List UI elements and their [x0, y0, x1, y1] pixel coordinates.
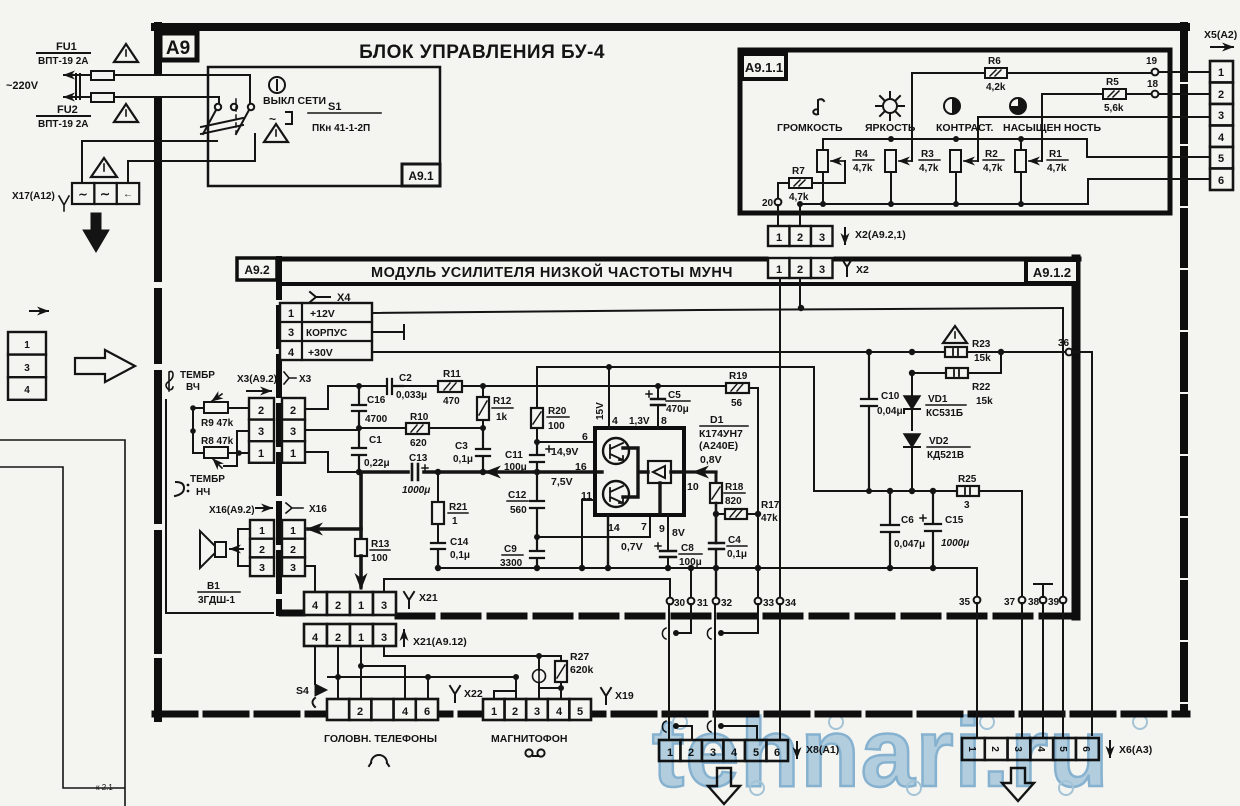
resistor R22 (parallel): [912, 353, 1001, 378]
label C12 560: [507, 490, 528, 516]
resistor R10: [406, 423, 429, 434]
svg-text:470μ: 470μ: [666, 404, 689, 415]
svg-text:А9.1.2: А9.1.2: [1033, 265, 1071, 280]
potentiometer R1 (saturation): [1015, 150, 1042, 172]
label C13 1000µ: [402, 453, 430, 496]
junction break 30/31: [662, 628, 679, 639]
svg-text:5,6k: 5,6k: [1104, 103, 1124, 114]
connector X17 fork symbol: [59, 196, 69, 211]
svg-text:БЛОК УПРАВЛЕНИЯ БУ-4: БЛОК УПРАВЛЕНИЯ БУ-4: [359, 42, 605, 63]
wire terminal 31 down, merge to 30 riser: [678, 604, 691, 633]
resistor R27 (vertical): [555, 656, 567, 699]
label R6 4,2k: [986, 56, 1006, 93]
svg-text:R25: R25: [958, 474, 977, 485]
svg-text:820: 820: [725, 496, 742, 507]
wire X21b pin3 to R27 top: [384, 646, 561, 656]
node R17 right on riser: [755, 511, 761, 517]
svg-text:100μ: 100μ: [679, 557, 702, 568]
label R22 15k: [972, 382, 993, 407]
svg-text:R22: R22: [972, 382, 991, 393]
svg-text:4700: 4700: [365, 414, 388, 425]
fuse FU1 body: [91, 71, 114, 80]
terminal 37: [1019, 597, 1026, 604]
label R5 5,6k: [1104, 77, 1124, 114]
label D1 К174УН7 (А240Е): [699, 414, 748, 452]
capacitor C14: [431, 543, 445, 568]
capacitor C3: [476, 428, 490, 472]
svg-text:К174УН7: К174УН7: [699, 428, 743, 440]
svg-text:ГРОМКОСТЬ: ГРОМКОСТЬ: [777, 122, 843, 134]
svg-text:2: 2: [258, 405, 264, 417]
node C15 top: [930, 488, 936, 494]
icon treble clef: [166, 371, 173, 391]
svg-text:КД521В: КД521В: [927, 450, 964, 461]
svg-text:R4: R4: [855, 149, 868, 160]
sub-box A9.1 (mains switch) frame: [208, 67, 440, 186]
connector X8(A1) cells 1-6: [659, 740, 788, 761]
svg-text:C13: C13: [409, 453, 428, 464]
svg-text:15k: 15k: [976, 396, 993, 407]
svg-text:C14: C14: [450, 537, 469, 548]
label C16 4700: [365, 395, 388, 425]
svg-text:4: 4: [612, 415, 618, 427]
label R23 15k: [972, 339, 991, 364]
svg-text:2: 2: [335, 600, 341, 612]
terminal 33: [755, 598, 762, 605]
wire R20top line to corner 814: [537, 367, 814, 491]
wire mains line 2 with arrow: [64, 96, 219, 98]
potentiometer R3 (brightness): [885, 150, 912, 172]
outer block A9 frame top edge: [155, 23, 1186, 31]
wire top bus to X5 pin5: [1021, 139, 1212, 157]
svg-text:МОДУЛЬ УСИЛИТЕЛЯ НИЗКОЙ ЧАСТО: МОДУЛЬ УСИЛИТЕЛЯ НИЗКОЙ ЧАСТОТЫ МУНЧ: [371, 263, 733, 281]
node C13/R21 junction: [435, 469, 441, 475]
svg-text:1: 1: [776, 232, 782, 244]
indicator icon circle-1: [269, 77, 285, 93]
svg-text:3: 3: [24, 363, 30, 374]
wire terminal 35 to X6 pin1: [976, 603, 978, 738]
label C6 0,047µ: [894, 515, 925, 550]
svg-text:(А240Е): (А240Е): [699, 440, 738, 452]
node gnd pin11: [579, 565, 585, 571]
svg-text:∼: ∼: [100, 187, 110, 201]
branch X8 pin5 from 32 riser: [707, 721, 757, 740]
svg-text:КОНТРАСТ.: КОНТРАСТ.: [936, 122, 994, 134]
svg-text:1: 1: [452, 516, 458, 527]
ground bus: [438, 567, 977, 569]
connector X3 (cable side) cells 2,3,1: [249, 398, 274, 463]
wire pin 8 riser to C5: [657, 386, 659, 428]
svg-text:4,2k: 4,2k: [986, 82, 1006, 93]
wire terminal 20 to X2 pin1: [777, 205, 779, 226]
node C16 top: [356, 383, 362, 389]
wire X21b pin2 down to X22 pin1: [337, 646, 339, 699]
label VD1 КС531Б: [926, 394, 966, 419]
node R27 line / X19 pin3 riser: [536, 653, 542, 659]
node bottom bus R1: [1018, 201, 1024, 207]
node R27 bottom / X19 pin4: [558, 685, 564, 691]
svg-text:14,9V: 14,9V: [551, 446, 578, 458]
wire bottom bus to X2 pin2: [799, 204, 801, 226]
svg-text:X3(А9.2): X3(А9.2): [237, 374, 277, 385]
label R25 3: [958, 474, 977, 511]
svg-text:C16: C16: [367, 395, 386, 406]
wire pin 11 to ground: [582, 500, 595, 568]
svg-text:НЧ: НЧ: [196, 487, 210, 498]
wire +12V rail: [372, 308, 1063, 313]
icon bass clef: [175, 482, 189, 496]
wire X19 pin1 hook: [494, 691, 516, 699]
svg-text:А9.2: А9.2: [244, 263, 270, 277]
label X6(A3) with down arrow: [1110, 741, 1152, 757]
svg-text:3: 3: [259, 562, 265, 574]
wire R2 wiper to X5 pin3: [978, 117, 1212, 161]
wire R4 wiper to R7: [812, 161, 845, 183]
svg-text:C10: C10: [881, 391, 900, 402]
wire bus to terminal 31: [690, 568, 692, 597]
wire X3a pin3 to R8 wiper: [224, 431, 249, 466]
svg-text:+30V: +30V: [308, 347, 333, 359]
thick internal wires of D1: [595, 448, 684, 513]
svg-text:R13: R13: [371, 539, 390, 550]
outer block A9 frame right edge (dashed): [1180, 26, 1188, 712]
wire X16 pin3 to X21 pin4: [305, 566, 315, 592]
svg-text:100: 100: [548, 421, 565, 432]
icon brightness sun: [876, 92, 904, 120]
svg-text:C1: C1: [369, 435, 382, 446]
node gnd C8: [665, 565, 671, 571]
wire C4 column to terminal 32: [715, 568, 717, 597]
svg-text:0,22μ: 0,22μ: [364, 458, 390, 469]
svg-text:D1: D1: [710, 414, 724, 426]
wire R5 to terminal 18 and X5 pin2: [1126, 93, 1212, 95]
node pin4 / R20 line: [606, 364, 612, 370]
svg-text:R19: R19: [729, 371, 748, 382]
svg-text:47k: 47k: [761, 513, 778, 524]
node VD1 top: [909, 349, 915, 355]
label B1 3ГДШ-1: [198, 581, 240, 606]
svg-text:6: 6: [1218, 175, 1224, 187]
svg-text:3: 3: [1218, 110, 1224, 122]
label X3 with fork: [284, 372, 312, 385]
svg-text:3: 3: [964, 500, 970, 511]
svg-text:~220V: ~220V: [6, 80, 39, 92]
svg-text:S1: S1: [328, 101, 341, 113]
node top bus R2: [953, 136, 959, 142]
node X2a pin2 rail: [798, 305, 804, 311]
node top bus R3: [888, 136, 894, 142]
wire from fuse2 to pole 1: [218, 97, 220, 103]
capacitor C13 (series, polarized): [412, 464, 428, 480]
A9.2 label box: [237, 258, 277, 280]
label C11 100µ: [504, 450, 527, 473]
chassis T-bar above terminal 38: [1034, 584, 1052, 597]
node R20 bottom / C11 top / pin6: [534, 439, 540, 445]
resistor R23 (in +30V rail): [945, 347, 967, 357]
capacitor C9: [530, 537, 544, 568]
svg-text:6: 6: [424, 706, 430, 718]
svg-text:2: 2: [1218, 89, 1224, 101]
potentiometer R4 (volume): [817, 150, 845, 172]
svg-text:20: 20: [762, 198, 774, 209]
svg-text:X17(A12): X17(A12): [12, 191, 55, 202]
connector X21(A9.12) cable side cells 4,2,1,3: [304, 624, 396, 646]
wire terminal 36 to X6 pin6: [1072, 352, 1092, 735]
wire to X22 pin5: [427, 677, 429, 699]
speaker B1: [200, 531, 243, 568]
svg-text:9: 9: [659, 523, 665, 535]
svg-text:X21: X21: [419, 592, 438, 604]
wire rail corner down to terminal 39: [1062, 308, 1064, 596]
svg-text:6: 6: [582, 431, 588, 443]
svg-text:4,7k: 4,7k: [1047, 163, 1067, 174]
terminal 35: [974, 597, 981, 604]
label R18 820: [724, 482, 745, 507]
svg-text:2: 2: [259, 544, 265, 556]
svg-text:0,1μ: 0,1μ: [727, 549, 747, 560]
svg-text:5: 5: [1218, 153, 1224, 165]
svg-text:4: 4: [556, 706, 563, 718]
svg-text:C6: C6: [901, 515, 914, 526]
connector X19 cells 1-5: [483, 699, 591, 720]
node gnd term31: [688, 565, 694, 571]
svg-text:2: 2: [290, 405, 296, 417]
thick wire X16 pin1 arrow to R13 column: [308, 527, 361, 531]
svg-text:C9: C9: [504, 544, 517, 555]
svg-text:3: 3: [381, 632, 387, 644]
resistor R21 (vertical): [432, 472, 444, 543]
node C3 bottom: [480, 469, 486, 475]
wire branch to X22 pin4: [361, 666, 405, 699]
icon headphones: [369, 755, 389, 766]
svg-text:56: 56: [731, 398, 743, 409]
svg-text:X2(А9.2,1): X2(А9.2,1): [855, 229, 906, 241]
resistor R5: [1103, 89, 1126, 99]
connector X3 (module side) cells 2,3,1: [282, 398, 305, 463]
svg-text:4: 4: [288, 347, 295, 359]
svg-text:C8: C8: [681, 543, 694, 554]
svg-text:1000μ: 1000μ: [941, 538, 969, 549]
svg-text:R18: R18: [725, 482, 744, 493]
svg-text:16: 16: [575, 461, 587, 473]
capacitor C6: [881, 491, 899, 568]
resistor R9 (tone pot): [204, 394, 228, 413]
svg-text:R23: R23: [972, 339, 991, 350]
svg-text:R12: R12: [493, 396, 512, 407]
wire X3 pin3 to R10: [305, 428, 406, 430]
wire X3 pin1 down to bass line: [305, 452, 359, 472]
node gnd C4: [713, 565, 719, 571]
label C9 3300: [500, 544, 523, 569]
svg-text:ВЧ: ВЧ: [186, 382, 200, 393]
svg-text:ТЕМБР: ТЕМБР: [190, 474, 225, 485]
label C5 470µ: [666, 390, 690, 415]
label R27 620k: [570, 651, 594, 676]
icon saturation circle: [1010, 98, 1026, 114]
node R22/R23 right: [998, 349, 1004, 355]
svg-text:2: 2: [357, 706, 363, 718]
resistor R7: [789, 178, 812, 188]
arrow on signal wire: [486, 471, 499, 473]
wire R9 right to X3a pin2: [228, 407, 249, 409]
svg-text:1: 1: [290, 525, 296, 537]
label C14 0,1µ: [450, 537, 470, 561]
svg-text:4: 4: [402, 706, 409, 718]
svg-text:VD2: VD2: [929, 436, 949, 447]
resistor R12 (vertical): [477, 386, 489, 428]
node R9 left: [190, 405, 196, 411]
svg-text:C11: C11: [505, 450, 523, 461]
A9.1.2 label box: [1026, 260, 1078, 283]
label R17 47k: [761, 500, 780, 524]
svg-text:37: 37: [1004, 597, 1016, 608]
label R2 4,7k: [983, 149, 1004, 174]
label X8(A1) with down arrow: [797, 742, 839, 758]
wire R6 to terminal 19 and X5 pin1: [1007, 72, 1212, 73]
module A9.2 frame bottom edge (dashed): [282, 613, 1079, 616]
arrow on pin10 wire: [694, 471, 708, 473]
node S4 line / X19 pin2 riser: [513, 674, 519, 680]
svg-text:ЯРКОСТЬ: ЯРКОСТЬ: [865, 122, 916, 134]
svg-text:C15: C15: [945, 515, 964, 526]
connector X4 table: [280, 303, 372, 360]
svg-text:39: 39: [1048, 597, 1060, 608]
svg-text:R11: R11: [443, 369, 461, 380]
wire pin7 link: [537, 518, 650, 537]
svg-text:к 2.1: к 2.1: [96, 783, 113, 792]
connector X6(A3) cells with rotated digits: [962, 738, 1099, 760]
module A9.2 frame left edge (dashed): [276, 259, 282, 613]
connector X2 (A9.2 side) cells: [768, 258, 833, 278]
warning triangle 1: [114, 44, 138, 62]
svg-text:560: 560: [510, 505, 527, 516]
wire X21a pin3 long signal to X6 pin2: [384, 579, 670, 597]
wire R19 right down to ground: [749, 388, 758, 568]
capacitor C1: [352, 428, 366, 472]
wire bottom bus to X5 pin6: [1088, 179, 1212, 204]
outer block A9 frame bottom edge (dashed): [155, 711, 1187, 718]
switch S1 levers: [203, 110, 249, 134]
capacitor C16: [352, 386, 366, 428]
outline arrow below X8: [708, 768, 740, 804]
svg-text:2: 2: [512, 706, 518, 718]
wire X2a pin1 down to terminal 34: [779, 278, 781, 596]
icon contrast half circle: [944, 98, 960, 114]
wire R3 wiper via R6 riser: [912, 73, 985, 161]
svg-text:R17: R17: [761, 500, 780, 511]
node gnd R17 riser: [755, 565, 761, 571]
svg-text:30: 30: [674, 598, 686, 609]
wire switch output 2 to X17 pin3: [128, 134, 255, 183]
capacitor C4: [709, 543, 724, 568]
transistor Q-top inside D1: [603, 438, 629, 464]
svg-text:19: 19: [1146, 56, 1158, 67]
svg-text:R7: R7: [792, 166, 805, 177]
svg-text:8V: 8V: [672, 527, 685, 539]
wire S4 line to X19 pin2: [328, 676, 516, 678]
svg-text:X2: X2: [856, 264, 869, 276]
terminal 38: [1040, 597, 1047, 604]
terminal 20: [775, 199, 782, 206]
svg-text:R21: R21: [449, 502, 468, 513]
svg-text:FU1: FU1: [56, 41, 77, 53]
terminal 36: [1066, 349, 1073, 356]
node C5 top: [655, 383, 661, 389]
node C10 bottom: [866, 488, 872, 494]
wire pin 10 thick with arrow: [684, 470, 716, 473]
warning triangle 3 (above X17): [91, 158, 117, 177]
wire R1 wiper via R5 riser: [1042, 94, 1103, 161]
warning triangle 4 (inside switch box): [264, 124, 288, 142]
svg-text:C4: C4: [728, 535, 741, 546]
label X16 with fork: [286, 503, 327, 515]
diode VD2: [904, 434, 920, 491]
label R4 4,7k: [853, 149, 874, 174]
svg-text:C2: C2: [399, 373, 412, 384]
svg-text:1: 1: [288, 308, 294, 320]
svg-text:X22: X22: [464, 688, 483, 700]
node X21b pin1 branch: [358, 663, 364, 669]
svg-text:FU2: FU2: [57, 104, 78, 116]
connector X16 (module side) cells 1,2,3: [282, 520, 305, 576]
svg-text:1k: 1k: [496, 412, 508, 423]
diode VD1 zener: [904, 373, 920, 430]
thin frame lines bottom-left: [0, 440, 125, 806]
wire terminal 33 down, merge to 32 riser: [723, 604, 758, 633]
svg-text:1: 1: [1218, 67, 1224, 79]
label R12 1k: [492, 396, 513, 423]
switch S1 lever cross slashes: [201, 118, 243, 134]
svg-text:КС531Б: КС531Б: [926, 408, 963, 419]
label X22 with fork: [450, 686, 483, 702]
label X19 with fork: [601, 688, 634, 704]
svg-text:R8 47k: R8 47k: [201, 436, 234, 447]
svg-text:0,8V: 0,8V: [700, 454, 722, 466]
svg-text:ВПТ-19 2А: ВПТ-19 2А: [38, 119, 89, 130]
jack break symbol on X19 pin3 riser: [533, 656, 546, 699]
node R22 left: [909, 370, 915, 376]
potentiometer R2 (contrast): [950, 150, 978, 172]
connector X22 cells _,2,_,4,6: [327, 699, 438, 720]
svg-text:34: 34: [785, 598, 797, 609]
A9.1 label box: [402, 164, 440, 186]
svg-text:4: 4: [312, 600, 319, 612]
connector X17 cells: [72, 183, 139, 204]
wire mains line 1 with arrow: [64, 74, 250, 76]
svg-text:3: 3: [819, 264, 825, 276]
svg-text:10: 10: [687, 481, 699, 493]
svg-text:A9: A9: [166, 38, 190, 59]
svg-text:0,1μ: 0,1μ: [450, 550, 470, 561]
svg-text:31: 31: [697, 598, 709, 609]
svg-text:36: 36: [1058, 338, 1070, 349]
svg-text:НАСЫЩЕН НОСТЬ: НАСЫЩЕН НОСТЬ: [1003, 122, 1101, 134]
switch S4 contact: [313, 684, 328, 707]
capacitor C2 (series): [387, 379, 403, 394]
capacitor C11 (polarized): [530, 442, 552, 472]
resistor R6: [985, 68, 1007, 78]
partial connector at left edge: [8, 311, 48, 400]
switch S1 poles (circles): [215, 104, 254, 110]
svg-text:3: 3: [290, 426, 296, 438]
node C1 bottom / R13 top: [356, 469, 362, 475]
wire pin6 from R20 node: [537, 441, 595, 443]
svg-text:А9.1: А9.1: [408, 169, 434, 183]
module A9.2 frame top edge: [281, 257, 1079, 262]
wire switch output 1 to X17 pin1: [82, 141, 217, 183]
svg-text:2: 2: [797, 264, 803, 276]
fuse FU2 body: [91, 93, 114, 102]
